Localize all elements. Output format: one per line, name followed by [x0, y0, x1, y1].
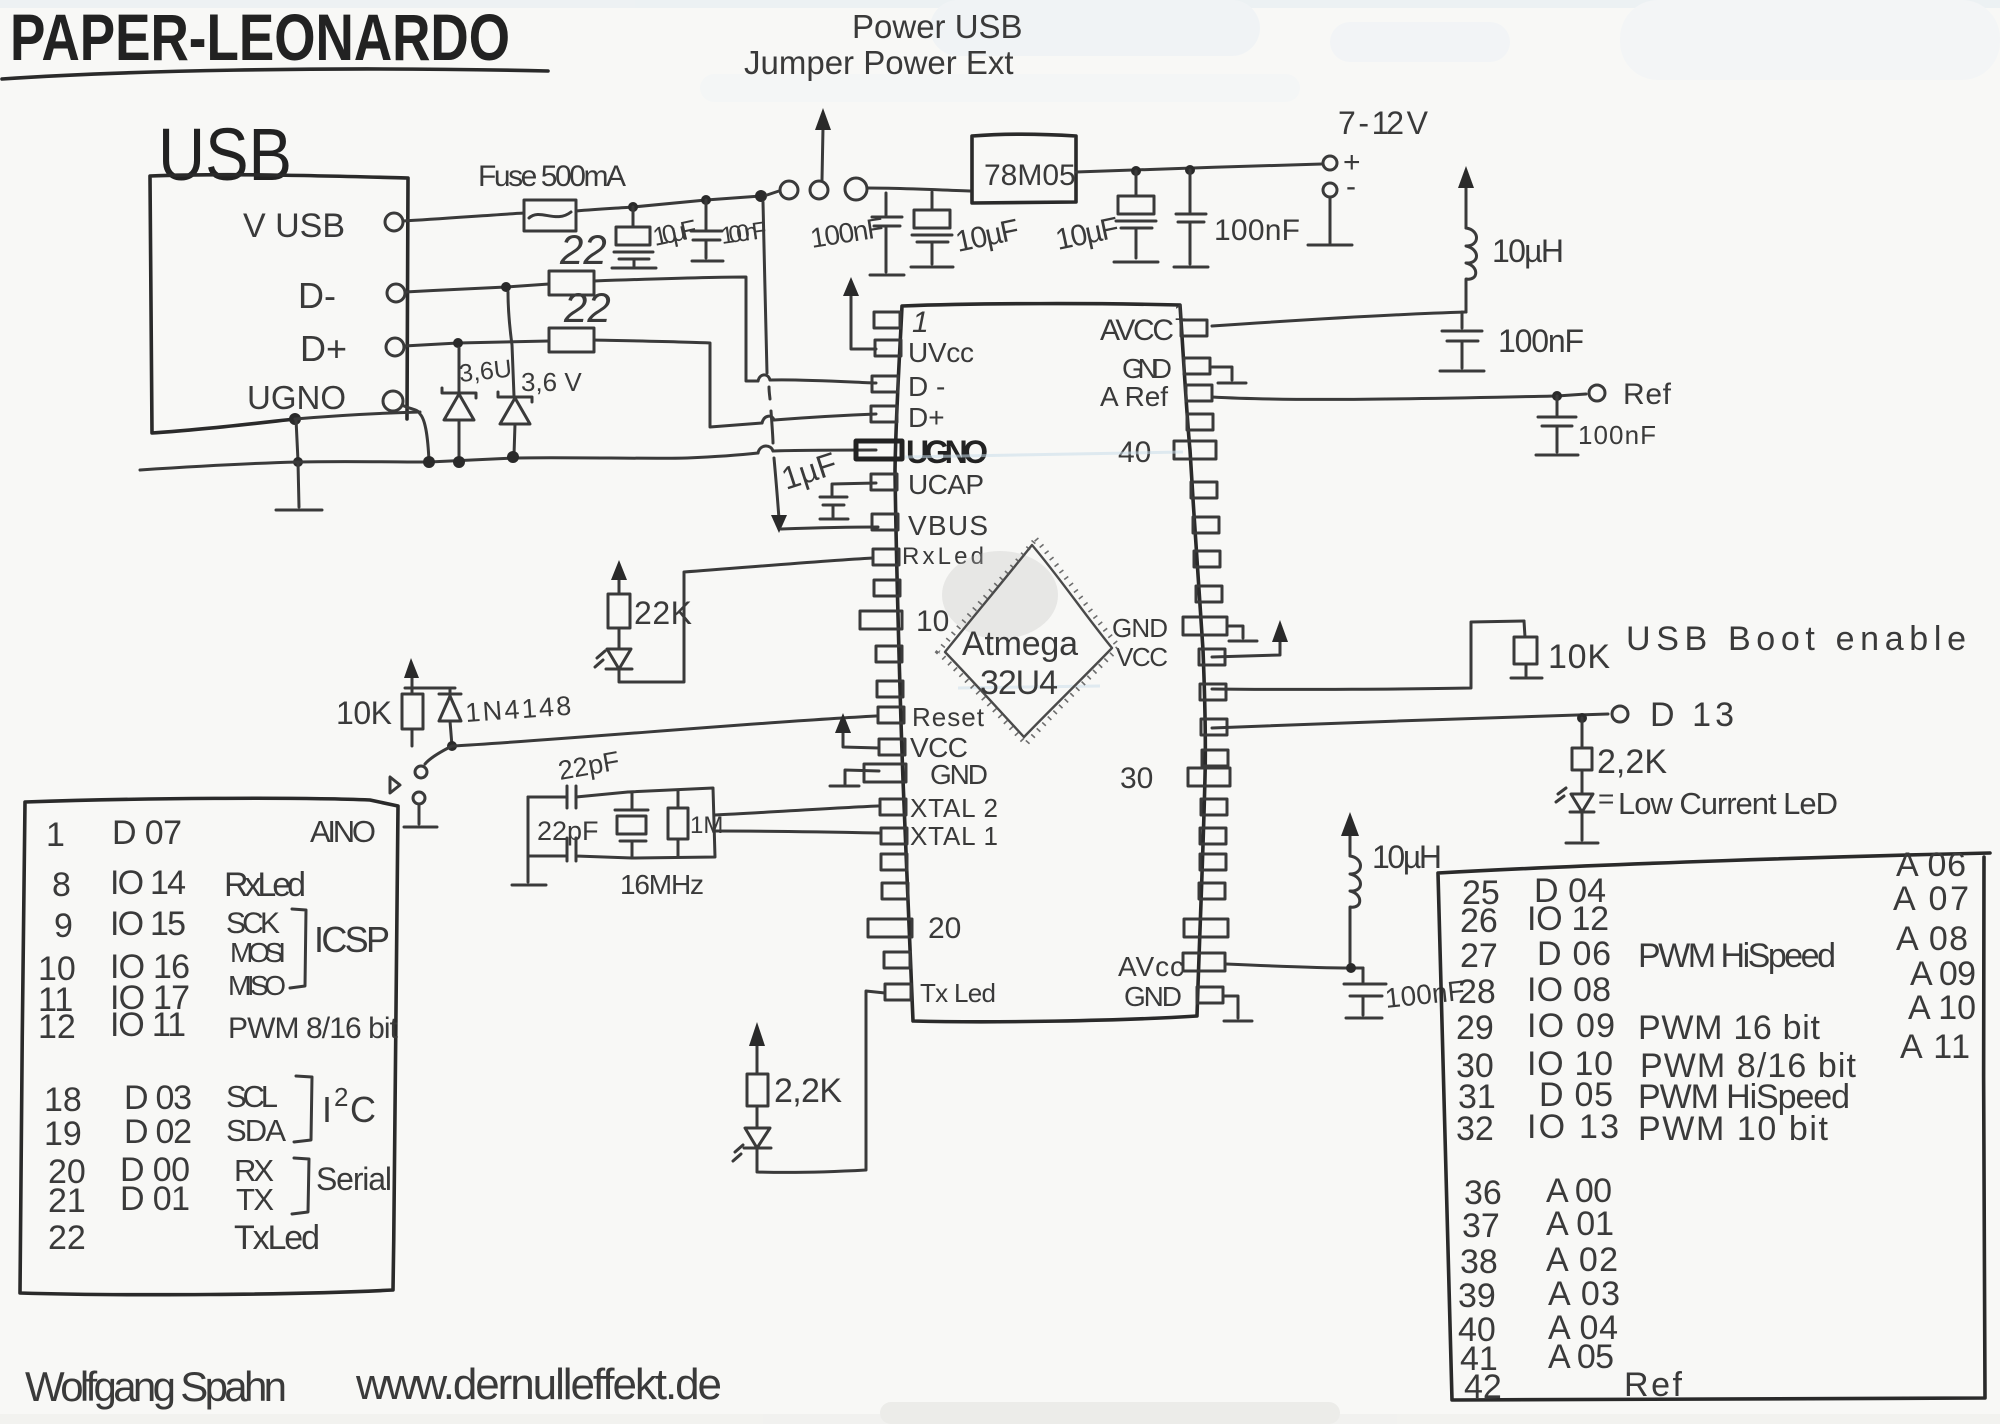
svg-text:SCL: SCL: [226, 1079, 278, 1114]
jumper pad 2 (Power USB): [810, 181, 828, 199]
pushbutton S1: [390, 746, 452, 827]
inductor 10uH AVCC: [1466, 228, 1477, 312]
node AVcc: [1346, 963, 1356, 973]
crystal X1 16MHz: [615, 788, 715, 858]
svg-text:Power USB: Power USB: [852, 8, 1023, 45]
capacitor C8 22pF bottom: [528, 838, 632, 861]
svg-text:XTAL 1: XTAL 1: [910, 821, 998, 851]
svg-text:GND: GND: [1112, 613, 1168, 643]
wire AVcc pin: [1226, 964, 1363, 968]
capacitor 100nF input: [870, 193, 904, 275]
svg-text:19: 19: [44, 1115, 82, 1153]
wire UGND bottom edge to node: [295, 412, 420, 419]
wire ARef to Ref terminal: [1212, 394, 1586, 399]
svg-text:Wolfgang Spahn: Wolfgang Spahn: [25, 1363, 287, 1410]
svg-text:Jumper Power Ext: Jumper Power Ext: [744, 44, 1014, 81]
svg-text:D -: D -: [908, 371, 945, 402]
ground USB: [276, 462, 322, 510]
svg-text:VBUS: VBUS: [908, 510, 988, 541]
svg-text:A 07: A 07: [1893, 880, 1969, 918]
svg-text:AVcc: AVcc: [1118, 951, 1184, 982]
wire crystal left bracket: [512, 797, 546, 885]
resistor R8 2,2K: [1572, 718, 1592, 794]
node ground rail left: [293, 457, 303, 467]
svg-text:A 03: A 03: [1548, 1275, 1620, 1313]
svg-text:D 01: D 01: [120, 1180, 190, 1218]
capacitor 10uF input (electrolytic): [911, 192, 953, 267]
svg-text:32: 32: [1456, 1110, 1494, 1148]
svg-text:PWM 16 bit: PWM 16 bit: [1638, 1009, 1821, 1047]
svg-text:UGNO: UGNO: [247, 379, 346, 416]
IC U1 body outline: [895, 304, 1205, 1022]
svg-text:VCC: VCC: [1116, 642, 1168, 672]
node output dot1: [1131, 166, 1141, 176]
svg-text:ICSP: ICSP: [314, 919, 390, 960]
title PAPER-LEONARDO: [10, 0, 510, 74]
node D13 tap: [1577, 713, 1587, 723]
table box right: [1438, 853, 1990, 1400]
svg-text:PAPER-LEONARDO: PAPER-LEONARDO: [10, 0, 510, 74]
svg-text:IO 08: IO 08: [1527, 971, 1611, 1009]
wire hop D-: [758, 375, 770, 381]
svg-text:D 03: D 03: [124, 1079, 192, 1117]
resistor R3 22K: [608, 594, 630, 628]
wire AVCC pin to inductor: [1212, 312, 1466, 326]
svg-text:USB: USB: [158, 113, 292, 196]
svg-text:1: 1: [46, 816, 65, 854]
svg-text:IO 15: IO 15: [110, 905, 186, 943]
svg-text:IO 13: IO 13: [1527, 1108, 1619, 1146]
svg-text:A 06: A 06: [1896, 846, 1966, 884]
svg-text:10µH: 10µH: [1492, 233, 1564, 269]
svg-text:PWM HiSpeed: PWM HiSpeed: [1638, 937, 1836, 975]
regulator 78M05: [972, 134, 1076, 203]
svg-text:UCAP: UCAP: [908, 469, 984, 500]
svg-text:TxLed: TxLed: [234, 1219, 320, 1257]
wire fuse to rail: [576, 196, 761, 211]
svg-text:10K: 10K: [1548, 638, 1610, 676]
svg-text:30: 30: [1120, 762, 1153, 795]
wire ground stub: [296, 419, 298, 461]
VCC arrow chip left: [843, 731, 879, 748]
svg-text:12: 12: [38, 1008, 76, 1046]
capacitor 100nF output: [1174, 170, 1208, 267]
wire hop ground rail: [758, 446, 773, 453]
bracket ICSP: [290, 909, 306, 988]
ground chip left: [830, 770, 879, 786]
terminal -: [1323, 183, 1337, 197]
svg-text:UVcc: UVcc: [908, 337, 974, 368]
svg-text:TX: TX: [236, 1182, 274, 1217]
wire TxLed pin down: [757, 991, 885, 1172]
wire ground rail to chip UGND: [140, 450, 876, 470]
terminal D13: [1612, 706, 1628, 722]
svg-text:D 06: D 06: [1537, 935, 1611, 973]
svg-text:10µH: 10µH: [1372, 839, 1442, 875]
faint scan guide lines: [905, 452, 1183, 457]
svg-text:1: 1: [912, 306, 929, 339]
svg-text:Ref: Ref: [1623, 378, 1672, 411]
terminal Ref: [1589, 385, 1605, 401]
svg-text:10: 10: [916, 605, 949, 638]
svg-text:PWM 8/16 bit: PWM 8/16 bit: [228, 1012, 399, 1045]
wire VBUS to pin: [781, 527, 878, 529]
wire R3 to LED: [618, 628, 621, 649]
svg-text:A 02: A 02: [1546, 1241, 1618, 1279]
svg-text:20: 20: [928, 912, 961, 945]
resistor R2 22 (D+): [549, 328, 594, 352]
VCC arrow AVcc bottom: [1349, 834, 1352, 856]
USB pin UGND: [383, 391, 403, 411]
svg-text:Serial: Serial: [316, 1161, 392, 1197]
wire pad3 to 78M05: [867, 188, 972, 191]
svg-text:A Ref: A Ref: [1100, 381, 1168, 412]
VCC arrow AVCC: [1465, 186, 1468, 228]
wire LED to RxLed pin: [619, 558, 873, 682]
VCC arrow mid: [1212, 640, 1280, 657]
bracket Serial: [292, 1158, 309, 1214]
jumper pad 1: [780, 181, 798, 199]
svg-text:1: 1: [1174, 300, 1186, 325]
svg-text:21: 21: [48, 1182, 86, 1220]
svg-text:A 11: A 11: [1900, 1028, 1970, 1066]
svg-text:9: 9: [54, 907, 73, 945]
svg-text:32U4: 32U4: [980, 664, 1058, 702]
diode D4 1N4148: [439, 688, 461, 746]
VBUS arrowhead: [771, 515, 787, 533]
title underline: [2, 69, 548, 79]
svg-text:MOSI: MOSI: [230, 937, 286, 968]
svg-text:GND: GND: [1122, 353, 1172, 384]
wire LED to R6: [756, 1106, 759, 1128]
svg-text:IO 09: IO 09: [1527, 1007, 1615, 1045]
svg-text:28: 28: [1458, 973, 1496, 1011]
capacitor 1uF UCAP: [820, 483, 876, 519]
svg-text:100nF: 100nF: [719, 217, 768, 250]
svg-text:SDA: SDA: [226, 1113, 286, 1148]
svg-text:AVCC: AVCC: [1100, 314, 1174, 347]
LED D5 TxLed: [733, 1128, 771, 1161]
svg-text:38: 38: [1460, 1243, 1498, 1281]
capacitor 100nF AVCC: [1440, 312, 1484, 371]
svg-text:22: 22: [559, 226, 607, 273]
svg-text:D 02: D 02: [124, 1113, 192, 1151]
node output dot2: [1185, 165, 1195, 175]
jumper pad 3 (Power Ext): [845, 178, 867, 200]
LED D6 low current: [1556, 788, 1594, 812]
svg-text:GND: GND: [1124, 981, 1182, 1012]
zener D1 3.6V (D+ line): [442, 348, 476, 460]
VCC arrow TxLed: [756, 1044, 759, 1074]
node VUSB rail dot1: [628, 202, 638, 212]
node rail zener1: [423, 456, 435, 468]
svg-text:D+: D+: [908, 402, 945, 433]
svg-text:Ref: Ref: [1624, 1366, 1683, 1404]
wire VBUS vertical: [763, 202, 779, 519]
bracket I2C: [294, 1076, 312, 1142]
wire XTAL1: [716, 831, 879, 833]
wire UGND pin hook: [402, 405, 429, 461]
VCC arrow RxLed: [618, 578, 621, 594]
ground GND bottom right: [1223, 996, 1252, 1021]
wire VUSB to fuse: [403, 213, 524, 221]
svg-text:42: 42: [1464, 1368, 1502, 1406]
svg-text:22: 22: [563, 284, 611, 331]
svg-text:2: 2: [334, 1082, 348, 1112]
capacitor 100nF AVcc bottom: [1344, 968, 1386, 1018]
svg-text:A 09: A 09: [1910, 955, 1976, 993]
node VUSB rail dot2: [701, 195, 711, 205]
svg-text:IO 11: IO 11: [110, 1006, 186, 1044]
svg-text:1N4148: 1N4148: [464, 691, 572, 728]
svg-text:3,6 V: 3,6 V: [521, 367, 582, 397]
terminal +: [1323, 156, 1337, 170]
ground GND mid: [1229, 626, 1257, 641]
svg-text:16MHz: 16MHz: [620, 869, 704, 900]
node USB box bottom: [289, 413, 301, 425]
fuse F1: [524, 200, 576, 231]
svg-text:V USB: V USB: [243, 207, 345, 245]
svg-text:37: 37: [1462, 1207, 1500, 1245]
svg-text:RxLed: RxLed: [224, 866, 306, 904]
Power USB arrow: [822, 128, 823, 180]
svg-text:78M05: 78M05: [984, 159, 1076, 192]
svg-text:22pF: 22pF: [537, 816, 599, 846]
wire hop D+: [762, 416, 774, 423]
svg-text:Low Current LeD: Low Current LeD: [1618, 786, 1838, 821]
svg-text:PWM 10 bit: PWM 10 bit: [1638, 1110, 1829, 1148]
VCC arrow reset: [411, 676, 414, 688]
svg-text:Tx Led: Tx Led: [920, 978, 996, 1008]
node rail zener2: [453, 456, 465, 468]
svg-text:SCK: SCK: [226, 907, 280, 940]
svg-text:10µF: 10µF: [1053, 211, 1122, 257]
wire 78M05 output rail: [1076, 164, 1322, 172]
svg-text:D 07: D 07: [112, 814, 182, 852]
IC pin boxes right: [1174, 320, 1230, 1003]
Atmega diamond badge: [938, 539, 1119, 744]
svg-text:MISO: MISO: [228, 970, 286, 1001]
svg-text:GND: GND: [930, 759, 988, 790]
ground D13 LED: [1566, 812, 1598, 843]
wire D13: [1212, 714, 1608, 728]
IC pin boxes left: [871, 312, 901, 422]
svg-text:100nF: 100nF: [1578, 420, 1656, 450]
svg-text:UGNO: UGNO: [906, 434, 988, 470]
svg-text:=: =: [1598, 783, 1614, 814]
svg-text:XTAL 2: XTAL 2: [910, 793, 998, 823]
wire D- to R 22: [405, 284, 549, 292]
wire UVcc arrow: [851, 294, 876, 349]
zener D2 3.6V (D- line): [498, 292, 532, 455]
node D+ zener tap: [453, 338, 463, 348]
USB connector box: [150, 175, 408, 433]
svg-text:29: 29: [1456, 1009, 1494, 1047]
svg-text:100nF: 100nF: [1383, 975, 1466, 1014]
svg-text:A 05: A 05: [1548, 1338, 1614, 1376]
resistor R1 22 (D-): [549, 271, 594, 295]
svg-text:USB Boot enable: USB Boot enable: [1626, 620, 1966, 658]
wire R1 to chip D-: [594, 277, 876, 383]
wire XTAL2: [715, 806, 878, 815]
svg-text:39: 39: [1458, 1277, 1496, 1315]
svg-text:Atmega: Atmega: [962, 625, 1078, 663]
svg-text:IO 14: IO 14: [110, 864, 186, 902]
svg-text:7 - 12 V: 7 - 12 V: [1338, 105, 1429, 141]
wire reset to chip: [452, 716, 876, 746]
svg-text:2,2K: 2,2K: [1597, 743, 1667, 781]
USB pin VUSB: [385, 213, 403, 231]
resistor R6 2.2K: [747, 1074, 768, 1106]
wire top rail reset: [405, 687, 455, 690]
svg-text:Fuse 500mA: Fuse 500mA: [478, 160, 626, 193]
capacitor 10uF output (electrolytic): [1114, 171, 1158, 262]
svg-text:AINO: AINO: [310, 814, 376, 849]
svg-text:I: I: [322, 1089, 332, 1130]
svg-text:18: 18: [44, 1081, 82, 1119]
wire D+ to R 22: [404, 341, 549, 346]
capacitor 100nF fuse side: [691, 200, 723, 261]
svg-text:D 13: D 13: [1650, 696, 1734, 734]
ground GND r1: [1212, 367, 1246, 383]
wire R2 to chip D+: [594, 340, 876, 427]
LED D3 RxLed: [595, 649, 632, 669]
svg-text:-: -: [1346, 170, 1356, 203]
ground ext supply: [1308, 197, 1352, 245]
resistor R4 10K: [402, 688, 423, 746]
svg-text:26: 26: [1460, 902, 1498, 940]
svg-text:22pF: 22pF: [556, 746, 622, 786]
svg-text:IO 12: IO 12: [1527, 900, 1609, 938]
svg-text:www.dernulleffekt.de: www.dernulleffekt.de: [355, 1360, 722, 1409]
capacitor C7 22pF top: [528, 786, 628, 808]
svg-text:Reset: Reset: [912, 702, 985, 732]
inductor 10uH AVcc: [1350, 856, 1361, 968]
USB pin D-: [387, 284, 405, 302]
node VUSB rail dot3: [755, 190, 767, 202]
svg-text:10K: 10K: [336, 695, 392, 731]
svg-text:10µF: 10µF: [953, 213, 1022, 259]
svg-text:A 10: A 10: [1908, 989, 1976, 1027]
USB pin D+: [386, 338, 404, 356]
table box left: [20, 798, 398, 1294]
wire USB boot enable: [1212, 621, 1524, 689]
node D- zener tap: [501, 282, 511, 292]
svg-text:100nF: 100nF: [1214, 214, 1300, 247]
node ARef dot: [1552, 391, 1562, 401]
svg-text:100nF: 100nF: [1498, 323, 1584, 359]
svg-text:D-: D-: [298, 275, 336, 316]
wire dot3 to jumper pad: [767, 191, 779, 195]
svg-text:8: 8: [52, 866, 71, 904]
resistor R5 1M: [668, 790, 688, 857]
svg-text:A 01: A 01: [1546, 1205, 1614, 1243]
svg-text:A 08: A 08: [1896, 920, 1968, 958]
capacitor 10uF fuse side (electrolytic): [612, 207, 656, 268]
svg-text:22: 22: [48, 1219, 86, 1257]
node rail zener3: [507, 451, 519, 463]
resistor R7 10K: [1511, 621, 1542, 678]
node reset junction: [447, 741, 457, 751]
svg-text:10µF: 10µF: [650, 213, 699, 251]
svg-text:100nF: 100nF: [808, 212, 886, 254]
svg-text:C: C: [350, 1089, 376, 1130]
capacitor 100nF Ref: [1536, 396, 1578, 455]
svg-text:3,6U: 3,6U: [458, 355, 513, 388]
svg-text:27: 27: [1460, 937, 1498, 975]
svg-text:D+: D+: [300, 328, 347, 369]
svg-text:2,2K: 2,2K: [774, 1072, 842, 1110]
